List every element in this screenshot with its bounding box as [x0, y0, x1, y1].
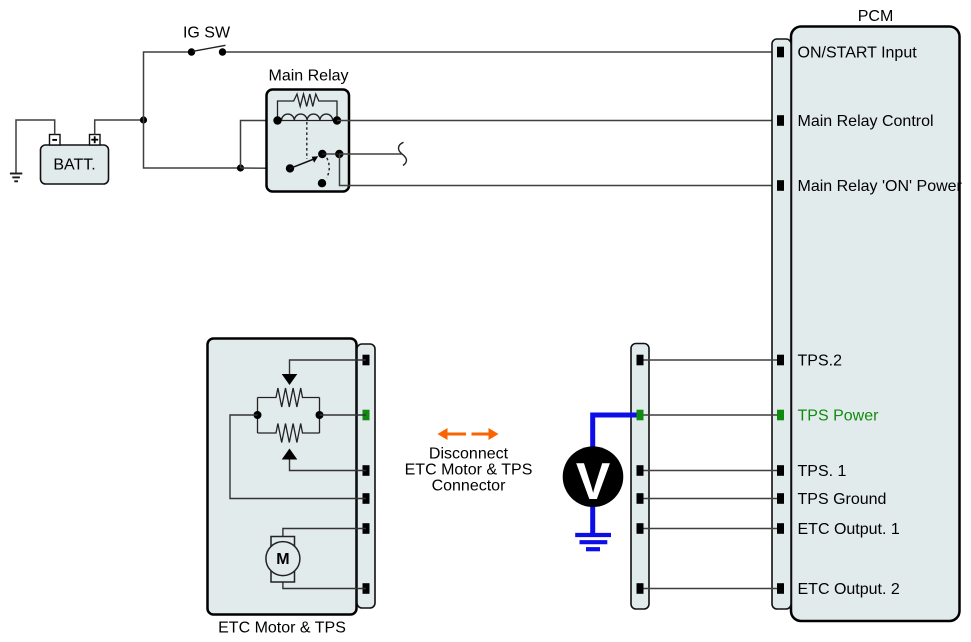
svg-text:ETC Motor & TPS: ETC Motor & TPS — [218, 620, 346, 637]
wire node R to TPS Power pin — [320, 414, 367, 416]
svg-text:V: V — [576, 452, 610, 510]
wire node L to TPS Ground pin — [230, 415, 366, 499]
wire battery negative to ground — [16, 120, 55, 173]
wire TPS.2 row — [644, 359, 778, 361]
svg-text:TPS. 1: TPS. 1 — [798, 463, 847, 480]
harness pin TPS Power (green) — [637, 410, 644, 421]
svg-text:TPS Ground: TPS Ground — [798, 491, 887, 508]
voltmeter V — [563, 446, 624, 509]
wire node B up to relay coil — [241, 121, 278, 169]
PCM pin ETC Output 2 — [777, 583, 784, 594]
relay travel dashed arc — [327, 158, 330, 178]
svg-text:Main Relay: Main Relay — [268, 68, 348, 85]
harness pin ETC Output 1 — [637, 523, 644, 534]
harness pin TPS.1 — [637, 465, 644, 476]
node A junction — [140, 116, 147, 123]
wire motor top to ETC Output 1 pin — [283, 529, 366, 537]
switch IG SW — [183, 25, 231, 56]
wire break squiggle — [399, 142, 407, 165]
resistor (relay) — [278, 94, 338, 121]
svg-text:PCM: PCM — [858, 8, 894, 25]
relay box Main Relay — [267, 68, 350, 192]
wire ETC Output 2 row — [644, 588, 778, 590]
wire relay coil to Main Relay Control — [337, 120, 777, 122]
svg-text:TPS.2: TPS.2 — [798, 353, 843, 370]
relay output junction dot — [335, 150, 343, 158]
node B junction — [237, 164, 244, 171]
svg-text:Main Relay 'ON' Power: Main Relay 'ON' Power — [798, 178, 963, 195]
ETC Motor & TPS box — [208, 339, 357, 637]
wire node A down — [144, 120, 241, 168]
ground (voltmeter, blue) — [575, 535, 611, 549]
wire TPS Power row — [644, 414, 778, 416]
wire TPS.1 row — [644, 470, 778, 472]
voltmeter blue lead to TPS Power pin — [593, 415, 637, 449]
disconnect note text — [405, 446, 533, 495]
wiper arrow down — [282, 374, 298, 385]
PCM pin TPS Power (green) — [777, 410, 784, 421]
inductor relay coil — [282, 114, 333, 120]
harness pin TPS.2 — [637, 355, 644, 366]
svg-text:Connector: Connector — [432, 478, 506, 495]
wire TPS wiper top feed — [290, 360, 367, 374]
disconnect arrow right (orange) — [472, 428, 499, 440]
ETC pin TPS Ground — [363, 493, 370, 504]
relay switch arm — [286, 156, 318, 172]
left branch riser — [257, 398, 259, 434]
wire ETC Output 1 row — [644, 528, 778, 530]
svg-text:ETC Motor & TPS: ETC Motor & TPS — [405, 462, 533, 479]
harness pin ETC Output 2 — [637, 583, 644, 594]
harness pin TPS Ground — [637, 493, 644, 504]
wire through relay coil — [278, 120, 338, 122]
PCM pin ON/START Input — [777, 47, 784, 58]
voltmeter blue lead to ground — [590, 504, 595, 535]
wire IG SW to PCM ON/START Input — [226, 51, 777, 53]
resistor TPS element 1 — [258, 388, 320, 407]
disconnect arrow left (orange) — [438, 428, 467, 440]
PCM pin Main Relay ON Power — [777, 180, 784, 191]
svg-text:M: M — [276, 551, 289, 568]
svg-text:BATT.: BATT. — [53, 157, 95, 174]
motor M — [266, 537, 300, 583]
ETC pin TPS Power (green) — [363, 410, 370, 421]
ETC pin ETC Output 1 — [363, 523, 370, 534]
ETC pin ETC Output 2 — [363, 583, 370, 594]
PCM pin TPS.2 — [777, 355, 784, 366]
svg-text:Disconnect: Disconnect — [429, 446, 509, 463]
PCM box — [791, 27, 960, 622]
battery BATT. — [41, 135, 109, 185]
wire TPS Ground row — [644, 498, 778, 500]
wire node B to relay switch common — [241, 167, 291, 169]
wire battery positive to node A — [95, 120, 144, 135]
right branch riser — [319, 398, 321, 434]
wire NO dot to junction dot — [322, 153, 340, 155]
ETC pin TPS.1 — [363, 465, 370, 476]
svg-text:ON/START Input: ON/START Input — [798, 45, 918, 62]
node L junction — [254, 411, 262, 419]
harness connector strip — [631, 344, 649, 610]
resistor TPS element 2 — [258, 424, 320, 443]
svg-text:ETC Output. 2: ETC Output. 2 — [798, 581, 900, 598]
PCM pin Main Relay Control — [777, 115, 784, 126]
ETC connector strip — [357, 344, 375, 608]
PCM pin TPS Ground — [777, 493, 784, 504]
coil terminal dots — [273, 116, 281, 124]
wiper arrow up — [282, 449, 298, 460]
node R junction — [316, 411, 324, 419]
wire relay NO to break symbol — [340, 153, 402, 155]
svg-text:ETC Output. 1: ETC Output. 1 — [798, 521, 900, 538]
relay NC contact dot — [318, 179, 326, 187]
wire relay to Main Relay ON Power — [340, 154, 778, 186]
PCM pin ETC Output 1 — [777, 523, 784, 534]
ETC pin TPS.2 — [363, 355, 370, 366]
svg-text:TPS Power: TPS Power — [798, 408, 880, 425]
PCM pin TPS.1 — [777, 465, 784, 476]
relay actuation dashed link — [306, 122, 308, 159]
relay NO contact dot — [318, 150, 326, 158]
PCM connector strip — [772, 39, 791, 609]
wire wiper bottom to TPS.1 pin — [290, 460, 367, 471]
svg-text:Main Relay Control: Main Relay Control — [798, 113, 934, 130]
wire motor bottom to ETC Output 2 pin — [283, 582, 366, 589]
wire node A up to IG SW — [144, 52, 189, 120]
ground (battery) — [10, 174, 22, 182]
svg-text:IG SW: IG SW — [183, 25, 231, 42]
